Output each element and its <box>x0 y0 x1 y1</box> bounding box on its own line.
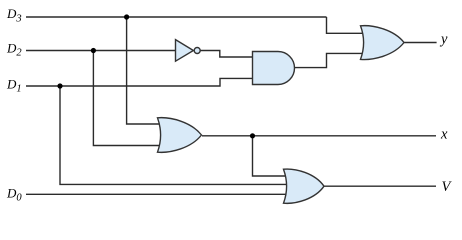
wire OR-x output to x <box>202 135 436 137</box>
OR gate y <box>361 26 405 60</box>
OR gate x <box>158 118 202 153</box>
svg-text:x: x <box>440 127 448 143</box>
junction node on D2 <box>91 48 96 53</box>
wire AND output to OR-y bottom input <box>295 53 371 67</box>
wire NOT output to AND top input <box>200 51 254 58</box>
svg-text:y: y <box>439 32 448 48</box>
svg-text:V: V <box>442 179 453 195</box>
wire x branch to OR-V top input <box>253 136 293 176</box>
junction node on x line <box>250 133 255 138</box>
wire D1 vertical branch to OR-V middle input <box>60 86 292 184</box>
svg-text:D2: D2 <box>6 40 22 58</box>
OR gate V <box>284 169 325 203</box>
wire D0 horizontal to OR-V bottom input <box>26 193 292 195</box>
wire OR-y output <box>404 42 437 44</box>
wire D3 vertical branch to OR-x top input <box>127 17 168 124</box>
svg-text:D1: D1 <box>6 76 22 94</box>
wire D3 corner to OR-y top input <box>327 17 371 33</box>
AND gate <box>253 52 295 85</box>
svg-text:D0: D0 <box>6 185 22 203</box>
wire D2 horizontal <box>26 50 176 52</box>
inverter bubble <box>194 48 200 54</box>
wire D3 horizontal <box>26 16 327 18</box>
junction node on D1 <box>57 83 62 88</box>
wire D2 vertical branch to OR-x bottom input <box>93 51 168 146</box>
inverter NOT gate triangle <box>176 40 194 62</box>
wire OR-V output to V <box>324 185 436 187</box>
svg-text:D3: D3 <box>6 6 22 24</box>
wire D1 horizontal to AND bottom input <box>26 78 254 86</box>
junction node on D3 <box>124 14 129 19</box>
